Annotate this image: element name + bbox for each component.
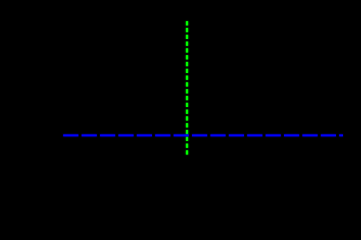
green dashed vertical line (core) [186, 21, 188, 155]
blue dashed horizontal line (core) [63, 134, 343, 136]
blue dashed horizontal line (glow underlay) [63, 134, 343, 137]
green dashed vertical line (glow underlay) [186, 21, 189, 155]
